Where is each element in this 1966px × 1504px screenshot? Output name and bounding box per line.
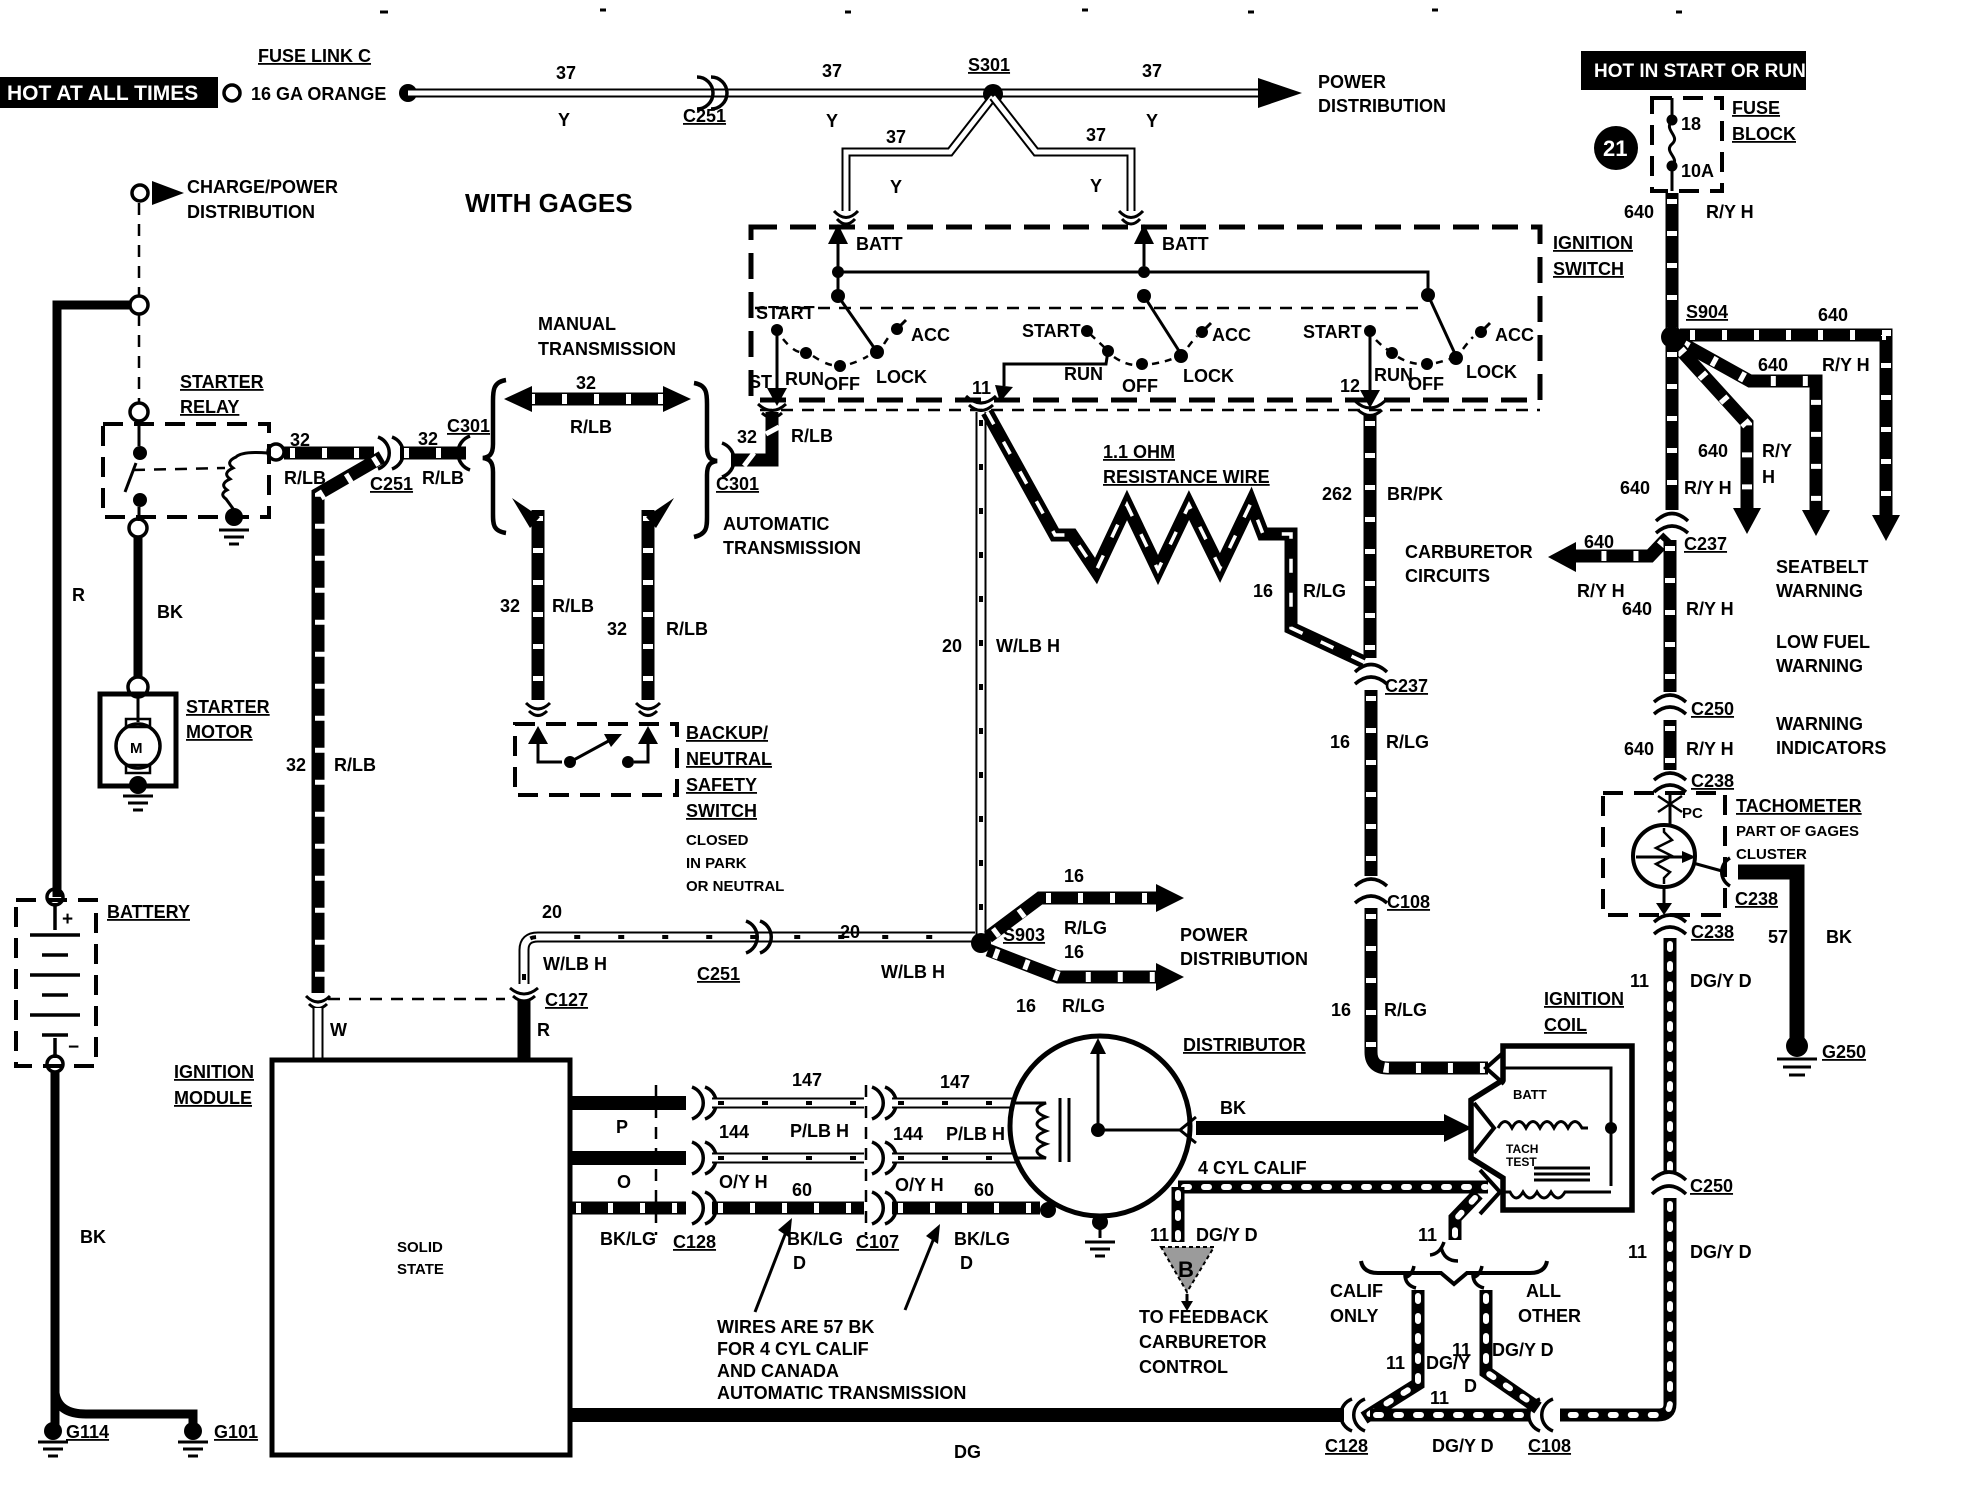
connector C250 [1654, 695, 1686, 714]
svg-text:20: 20 [942, 636, 962, 656]
connector C127 [510, 988, 538, 1001]
svg-text:W/LB H: W/LB H [543, 954, 607, 974]
wire S301 right branch 37 Y [993, 97, 1131, 211]
wire R battery positive riser [57, 305, 129, 897]
ground G250 [1786, 1035, 1808, 1057]
wire dashed node to relay [138, 314, 141, 403]
backup/neutral safety switch box [515, 724, 677, 795]
backup switch left contact [564, 756, 576, 768]
wire 16 R/LG C237 to C108 [1365, 690, 1378, 876]
wire 640 R/Y H fuse to S904 [1666, 193, 1679, 328]
coil BATT chevron [1486, 1052, 1504, 1084]
svg-text:R/LG: R/LG [1303, 581, 1346, 601]
svg-text:DISTRIBUTION: DISTRIBUTION [187, 202, 315, 222]
svg-text:R/LG: R/LG [1386, 732, 1429, 752]
svg-text:FUSE LINK C: FUSE LINK C [258, 46, 371, 66]
wire BK distributor to coil [1196, 1121, 1446, 1135]
svg-text:C127: C127 [545, 990, 588, 1010]
svg-text:BATT: BATT [1513, 1087, 1547, 1102]
svg-text:60: 60 [974, 1180, 994, 1200]
svg-text:BR/PK: BR/PK [1387, 484, 1443, 504]
svg-text:147: 147 [940, 1072, 970, 1092]
connector C251 on 37 wire [697, 77, 727, 109]
wire 144 P/LB H segment 1 [712, 1098, 864, 1109]
svg-text:32: 32 [500, 596, 520, 616]
connector C108 bottom [1529, 1399, 1553, 1431]
starter relay box [103, 424, 269, 517]
svg-text:640: 640 [1818, 305, 1848, 325]
svg-text:4 CYL CALIF: 4 CYL CALIF [1198, 1158, 1307, 1178]
svg-text:G250: G250 [1822, 1042, 1866, 1062]
svg-text:DISTRIBUTION: DISTRIBUTION [1180, 949, 1308, 969]
node at fuse link start [399, 84, 417, 102]
svg-text:16: 16 [1330, 732, 1350, 752]
ignition module box [272, 1060, 570, 1455]
svg-text:16: 16 [1016, 996, 1036, 1016]
splice S903 [971, 933, 991, 953]
connector arc on stub [1430, 1242, 1458, 1261]
left branch connector arc [1404, 1266, 1416, 1288]
svg-text:PART OF GAGES: PART OF GAGES [1736, 823, 1859, 840]
svg-text:C238: C238 [1691, 922, 1734, 942]
wire 32 R/LB C251 to C301 [400, 447, 466, 460]
right cluster output to 12 [1369, 331, 1372, 392]
connector at right branch end [1119, 211, 1143, 224]
wire 640 main down [1666, 346, 1679, 510]
connector C107 on P [872, 1087, 896, 1119]
svg-text:CONTROL: CONTROL [1139, 1357, 1228, 1377]
svg-text:12: 12 [1340, 376, 1360, 396]
svg-text:PC: PC [1682, 805, 1703, 822]
distributor body circle [1010, 1036, 1190, 1216]
svg-text:16: 16 [1253, 581, 1273, 601]
svg-text:COIL: COIL [1544, 1015, 1587, 1035]
dashed connector line C128 [655, 1085, 658, 1235]
svg-text:RESISTANCE WIRE: RESISTANCE WIRE [1103, 467, 1270, 487]
tach input wire [1669, 792, 1672, 824]
connector C237 left [1355, 665, 1387, 685]
circled 21 [1594, 126, 1638, 170]
right OFF contact [1421, 358, 1433, 370]
svg-text:M: M [130, 740, 143, 757]
svg-text:DG/Y D: DG/Y D [1690, 971, 1752, 991]
svg-text:SWITCH: SWITCH [1553, 259, 1624, 279]
left cluster pivot [837, 272, 840, 296]
arrow to power distribution [1258, 78, 1302, 108]
svg-text:57: 57 [1768, 927, 1788, 947]
svg-text:TO FEEDBACK: TO FEEDBACK [1139, 1307, 1269, 1327]
svg-text:STARTER: STARTER [180, 372, 264, 392]
dashed link to C127 [328, 998, 505, 1001]
svg-text:C301: C301 [447, 416, 490, 436]
wire BK battery negative [51, 1072, 60, 1428]
left OFF contact [834, 360, 846, 372]
svg-text:STATE: STATE [397, 1261, 444, 1278]
svg-text:C238: C238 [1735, 889, 1778, 909]
svg-text:37: 37 [822, 61, 842, 81]
svg-text:640: 640 [1584, 532, 1614, 552]
svg-text:32: 32 [418, 429, 438, 449]
starter motor box [100, 694, 176, 786]
svg-text:C128: C128 [673, 1232, 716, 1252]
wire 11 DG/Y D C238 to C250 [1664, 938, 1677, 1172]
wire 32 R/LB branch down from C251 [318, 457, 382, 993]
wire 11 DG/Y D C250 down to bottom [1560, 1198, 1670, 1415]
svg-text:R/Y H: R/Y H [1706, 202, 1754, 222]
svg-text:ACC: ACC [911, 325, 950, 345]
svg-text:C301: C301 [716, 474, 759, 494]
connector C128 on BK/LG [692, 1192, 716, 1224]
svg-text:FUSE: FUSE [1732, 98, 1780, 118]
right ACC contact [1475, 326, 1487, 338]
motor brush bottom [126, 765, 150, 773]
svg-text:147: 147 [792, 1070, 822, 1090]
ground starter motor [123, 796, 153, 810]
svg-text:START: START [1022, 321, 1081, 341]
svg-text:P/LB H: P/LB H [790, 1121, 849, 1141]
svg-text:R/LB: R/LB [284, 468, 326, 488]
middle detent dashes [1114, 336, 1197, 365]
terminal 12 connector [1355, 401, 1385, 416]
wire BK/LG D segment 1 [712, 1202, 864, 1215]
svg-text:640: 640 [1624, 202, 1654, 222]
svg-text:CHARGE/POWER: CHARGE/POWER [187, 177, 338, 197]
connector C251 lower [746, 921, 771, 953]
svg-text:LOCK: LOCK [1466, 362, 1517, 382]
svg-text:R/LB: R/LB [334, 755, 376, 775]
svg-text:CLOSED: CLOSED [686, 832, 749, 849]
wire 262 BR/PK [1364, 415, 1377, 658]
svg-text:CARBURETOR: CARBURETOR [1405, 542, 1533, 562]
svg-text:Y: Y [1146, 111, 1158, 131]
svg-text:SWITCH: SWITCH [686, 801, 757, 821]
svg-text:AND CANADA: AND CANADA [717, 1361, 839, 1381]
ignition switch box [751, 227, 1540, 400]
wire BK/LG module output [570, 1202, 686, 1215]
svg-text:16: 16 [1064, 942, 1084, 962]
svg-text:262: 262 [1322, 484, 1352, 504]
svg-text:C237: C237 [1385, 676, 1428, 696]
svg-text:IGNITION: IGNITION [174, 1062, 254, 1082]
svg-text:640: 640 [1758, 355, 1788, 375]
svg-text:11: 11 [1628, 1242, 1647, 1262]
left START contact [771, 324, 783, 336]
ground distributor [1085, 1242, 1115, 1256]
svg-text:TACH: TACH [1506, 1142, 1538, 1156]
wire 640 C250 to C238 [1664, 720, 1677, 770]
coil core bars [1534, 1168, 1590, 1180]
wire O module output [570, 1151, 686, 1165]
banner HOT AT ALL TIMES [0, 77, 218, 108]
svg-text:RUN: RUN [785, 369, 824, 389]
arrow charge/power [152, 181, 184, 205]
ignition coil box [1471, 1046, 1632, 1210]
motor armature M [116, 724, 160, 768]
backup switch right contact [622, 756, 634, 768]
connector C238 bottom [1654, 915, 1686, 934]
svg-text:D: D [1464, 1376, 1477, 1396]
svg-text:C251: C251 [370, 474, 413, 494]
svg-text:TRANSMISSION: TRANSMISSION [538, 339, 676, 359]
connector C128 on O [692, 1142, 716, 1174]
svg-text:DG/Y D: DG/Y D [1690, 1242, 1752, 1262]
wire 20 W/LB H vertical [976, 412, 987, 938]
svg-text:NEUTRAL: NEUTRAL [686, 749, 772, 769]
svg-text:ONLY: ONLY [1330, 1306, 1378, 1326]
svg-text:C107: C107 [856, 1232, 899, 1252]
svg-text:BK/LG: BK/LG [600, 1229, 656, 1249]
motor brush top [126, 719, 150, 727]
svg-text:G114: G114 [66, 1422, 109, 1442]
svg-text:60: 60 [792, 1180, 812, 1200]
svg-text:R/LB: R/LB [552, 596, 594, 616]
right LOCK contact [1449, 351, 1463, 365]
connector C128 on P [692, 1087, 716, 1119]
distributor rotor shaft [1097, 1052, 1100, 1130]
svg-text:S301: S301 [968, 55, 1010, 75]
connector C251 [378, 437, 403, 469]
svg-text:WARNING: WARNING [1776, 714, 1863, 734]
svg-text:32: 32 [607, 619, 627, 639]
middle OFF contact [1136, 358, 1148, 370]
svg-text:640: 640 [1698, 441, 1728, 461]
svg-text:C237: C237 [1684, 534, 1727, 554]
node on distributor ground lead [1040, 1202, 1056, 1218]
svg-text:R/LB: R/LB [791, 426, 833, 446]
coil input terminal chevron [1474, 1103, 1494, 1153]
wire 640 branch 3 [1676, 345, 1747, 513]
svg-text:WIRES ARE 57 BK: WIRES ARE 57 BK [717, 1317, 874, 1337]
svg-text:D: D [960, 1253, 973, 1273]
svg-text:SEATBELT: SEATBELT [1776, 557, 1868, 577]
svg-text:11: 11 [1418, 1225, 1437, 1245]
BATT terminal arrow left [837, 238, 840, 266]
fuse element [1669, 98, 1674, 191]
connector C301 left [458, 436, 470, 470]
svg-text:R/Y H: R/Y H [1577, 581, 1625, 601]
svg-text:16: 16 [1064, 866, 1084, 886]
wire 16 R/LG branch down [988, 950, 1158, 977]
svg-text:TACHOMETER: TACHOMETER [1736, 796, 1862, 816]
battery box [16, 900, 96, 1066]
svg-text:C108: C108 [1387, 892, 1430, 912]
svg-text:C108: C108 [1528, 1436, 1571, 1456]
wire 16 R/LG branch up [988, 898, 1158, 937]
svg-text:ST: ST [749, 372, 772, 392]
middle LOCK contact [1174, 349, 1188, 363]
coil output branch stub [1455, 1194, 1478, 1240]
svg-text:Y: Y [826, 111, 838, 131]
svg-text:640: 640 [1624, 739, 1654, 759]
svg-text:BLOCK: BLOCK [1732, 124, 1796, 144]
connector C107 on O [872, 1142, 896, 1174]
ground relay coil [219, 530, 249, 544]
middle blade [1144, 296, 1181, 354]
relay to motor circle [129, 519, 147, 537]
wire 57 BK to G250 [1738, 872, 1797, 1038]
relay linkage dashed [133, 468, 225, 470]
svg-text:R/LB: R/LB [570, 417, 612, 437]
tach resistor [1656, 828, 1672, 884]
wire 144 P/LB H segment 2 [892, 1098, 1014, 1109]
svg-text:11: 11 [1386, 1353, 1405, 1373]
wire S301 left branch 37 Y [846, 97, 993, 211]
svg-text:O/Y H: O/Y H [895, 1175, 944, 1195]
svg-text:R/LG: R/LG [1384, 1000, 1427, 1020]
svg-text:WARNING: WARNING [1776, 656, 1863, 676]
wire BK relay to starter motor [134, 537, 143, 677]
svg-text:MODULE: MODULE [174, 1088, 252, 1108]
motor ground dot [129, 776, 147, 794]
svg-text:W: W [330, 1020, 347, 1040]
tachometer box [1603, 793, 1725, 915]
svg-text:37: 37 [556, 63, 576, 83]
svg-text:CARBURETOR: CARBURETOR [1139, 1332, 1267, 1352]
relay output terminal circle [268, 444, 284, 460]
svg-text:OR NEUTRAL: OR NEUTRAL [686, 878, 784, 895]
wire R module feed [518, 1000, 531, 1058]
svg-text:32: 32 [286, 755, 306, 775]
right RUN contact [1386, 347, 1398, 359]
connector at ST terminal [758, 404, 786, 418]
svg-text:11: 11 [1430, 1388, 1449, 1408]
svg-text:Y: Y [558, 110, 570, 130]
wire DG module to C128 [570, 1408, 1344, 1422]
coil primary winding [1498, 1122, 1588, 1129]
svg-text:B: B [1178, 1257, 1194, 1282]
pointer arrow to BK/LG wire 2 [905, 1238, 934, 1310]
wire 32 R/LB left drop to backup switch [532, 510, 545, 700]
svg-text:R/LG: R/LG [1062, 996, 1105, 1016]
battery negative circle [47, 1056, 63, 1072]
middle ACC contact [1196, 326, 1208, 338]
svg-text:11: 11 [972, 378, 991, 398]
options brace [1361, 1261, 1547, 1284]
wire 640 C237 to C250 [1664, 540, 1677, 692]
svg-text:BK/LG: BK/LG [954, 1229, 1010, 1249]
connector C127 left half [306, 996, 330, 1009]
svg-text:R/LB: R/LB [422, 468, 464, 488]
battery positive circle [47, 889, 63, 905]
svg-text:11: 11 [1630, 971, 1649, 991]
svg-text:C238: C238 [1691, 771, 1734, 791]
svg-text:C250: C250 [1690, 1176, 1733, 1196]
connector C250 lower [1652, 1172, 1686, 1194]
svg-text:R: R [537, 1020, 550, 1040]
left cluster blade to LOCK [838, 296, 875, 349]
tach wiper arrow [1636, 856, 1684, 859]
svg-text:IN PARK: IN PARK [686, 855, 747, 872]
svg-text:144: 144 [719, 1122, 749, 1142]
middle RUN contact [1102, 345, 1114, 357]
svg-text:START: START [1303, 322, 1362, 342]
relay switch contact top [133, 446, 147, 460]
svg-text:BK: BK [157, 602, 183, 622]
connector at left drop end [526, 703, 550, 716]
svg-text:R/Y H: R/Y H [1822, 355, 1870, 375]
wire 1.1 ohm resistance [987, 412, 1364, 662]
svg-text:BATT: BATT [1162, 234, 1209, 254]
wire battery negative to G101 [55, 1393, 193, 1427]
wire P module output [570, 1096, 686, 1110]
svg-text:SAFETY: SAFETY [686, 775, 757, 795]
svg-text:DG/Y D: DG/Y D [1432, 1436, 1494, 1456]
svg-text:C128: C128 [1325, 1436, 1368, 1456]
svg-text:SOLID: SOLID [397, 1239, 443, 1256]
svg-text:640: 640 [1620, 478, 1650, 498]
banner HOT IN START OR RUN [1581, 51, 1806, 90]
starter motor terminal circle [128, 677, 148, 697]
coil secondary winding [1500, 1192, 1611, 1198]
wire 11 DG/Y D calif branch [1364, 1290, 1418, 1418]
svg-text:MOTOR: MOTOR [186, 722, 253, 742]
svg-text:Y: Y [890, 177, 902, 197]
svg-text:DG/Y D: DG/Y D [1492, 1340, 1554, 1360]
svg-text:20: 20 [840, 922, 860, 942]
svg-text:CIRCUITS: CIRCUITS [1405, 566, 1490, 586]
svg-text:BK: BK [1826, 927, 1852, 947]
svg-text:HOT IN START OR RUN: HOT IN START OR RUN [1594, 61, 1806, 82]
right detent dashes [1376, 337, 1473, 364]
svg-text:20: 20 [542, 902, 562, 922]
svg-text:ACC: ACC [1495, 325, 1534, 345]
svg-text:BK: BK [80, 1227, 106, 1247]
charge/power distribution terminal circle [132, 185, 148, 201]
svg-text:AUTOMATIC: AUTOMATIC [723, 514, 829, 534]
svg-text:144: 144 [893, 1124, 923, 1144]
svg-text:POWER: POWER [1318, 72, 1386, 92]
svg-text:32: 32 [290, 430, 310, 450]
relay coil ground dot [225, 508, 243, 526]
svg-text:BK: BK [1220, 1098, 1246, 1118]
svg-text:Y: Y [1090, 176, 1102, 196]
wire 32 R/LB to ST terminal [731, 412, 772, 460]
wire 20 W/LB H C127 to S903 [524, 937, 975, 984]
relay switch blade [125, 463, 136, 492]
svg-text:RUN: RUN [1064, 364, 1103, 384]
svg-text:C251: C251 [697, 964, 740, 984]
coil top conductor [1504, 1068, 1611, 1186]
relay coil [223, 453, 268, 511]
svg-text:TRANSMISSION: TRANSMISSION [723, 538, 861, 558]
switch feed line [838, 266, 1428, 295]
svg-text:16: 16 [1331, 1000, 1351, 1020]
backup switch blade [570, 738, 614, 762]
connector C128 bottom [1341, 1399, 1365, 1431]
svg-text:H: H [1762, 467, 1775, 487]
svg-text:DISTRIBUTION: DISTRIBUTION [1318, 96, 1446, 116]
wire 640 branch 1 [1680, 335, 1886, 520]
dashed line below switch box [760, 409, 1540, 412]
pickup core bars [1060, 1098, 1069, 1162]
svg-text:32: 32 [576, 373, 596, 393]
svg-text:IGNITION: IGNITION [1544, 989, 1624, 1009]
distributor ground lead [1099, 1216, 1102, 1238]
dashed connector line C107 [865, 1085, 868, 1235]
svg-text:C250: C250 [1691, 699, 1734, 719]
wire 32 R/LB right drop to backup switch [642, 510, 655, 700]
ground G101 [184, 1422, 202, 1440]
svg-text:TEST: TEST [1506, 1155, 1537, 1169]
battery cells [30, 903, 80, 1058]
connector C107 on BK/LG [872, 1192, 896, 1224]
svg-text:S904: S904 [1686, 302, 1728, 322]
svg-text:P/LB H: P/LB H [946, 1124, 1005, 1144]
wire 640 branch 2 [1678, 341, 1816, 515]
svg-text:R/LB: R/LB [666, 619, 708, 639]
backup switch right terminal arrow [634, 742, 648, 762]
wire 11 DG/Y D tach test feed [1178, 1181, 1488, 1194]
